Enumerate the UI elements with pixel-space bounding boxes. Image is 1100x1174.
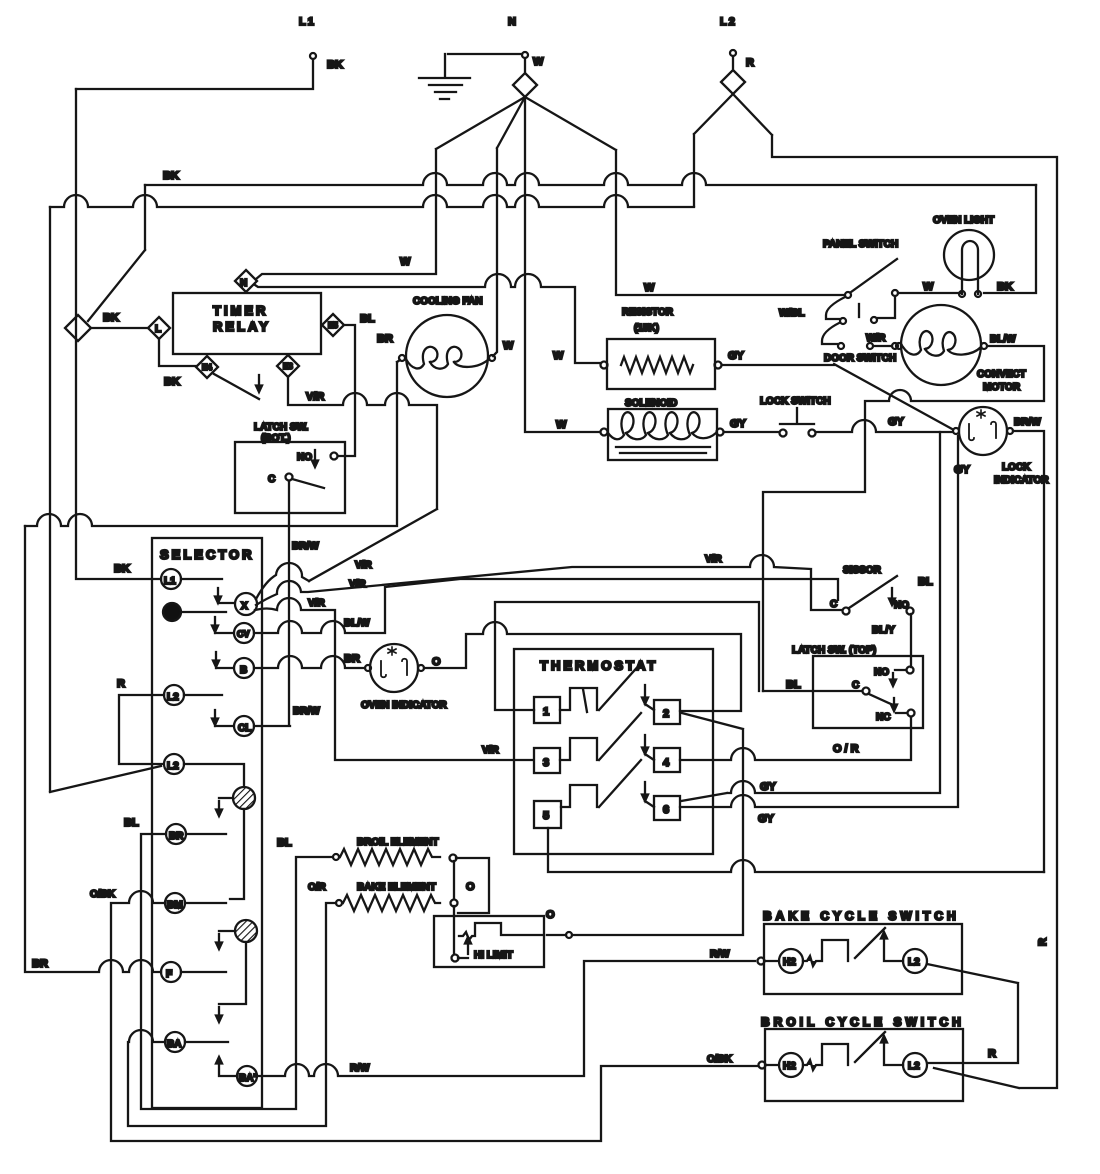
- svg-text:5: 5: [543, 810, 549, 822]
- wire BR/W lock indicator right to bottom route: [1013, 431, 1044, 872]
- svg-text:CONVECT: CONVECT: [977, 369, 1026, 380]
- thermostat contact 1-2: [560, 663, 654, 710]
- latch bot NO arrow: [312, 450, 318, 467]
- selector hatched contact 1: [233, 787, 255, 809]
- solenoid coil: [608, 412, 716, 439]
- hi limit box: [434, 916, 544, 967]
- svg-text:BL: BL: [918, 576, 933, 588]
- cooling fan: [406, 315, 488, 397]
- svg-text:GY: GY: [758, 813, 775, 825]
- latch switch (bot) box: [235, 442, 345, 513]
- svg-text:BAKE ELEMENT: BAKE ELEMENT: [357, 882, 436, 893]
- svg-text:3: 3: [543, 757, 549, 769]
- wire BK bus west end to connector diamond: [88, 185, 145, 321]
- svg-text:BK: BK: [163, 170, 179, 182]
- svg-text:NO: NO: [894, 600, 909, 611]
- timer blade from E4: [214, 374, 259, 399]
- wire V/R X to sissor: [256, 555, 842, 610]
- svg-text:2: 2: [663, 708, 669, 720]
- lock indicator star: [977, 410, 985, 418]
- svg-text:X: X: [241, 601, 248, 612]
- terminal E5 diamond: [322, 314, 344, 336]
- wire V/R X to pin3: [255, 598, 533, 760]
- wire V/R E3 to X (via top route): [288, 377, 437, 581]
- wire BL to latch top C: [763, 690, 862, 692]
- wire BL/W convect right to BL net: [763, 346, 1044, 691]
- svg-text:BL/W: BL/W: [990, 334, 1016, 345]
- pin 5: [534, 801, 561, 828]
- svg-text:6: 6: [663, 804, 669, 816]
- svg-text:BR: BR: [377, 333, 393, 345]
- selector terminal BR: [166, 824, 186, 844]
- selector terminal BA: [165, 1032, 185, 1052]
- wire R bake L2 to broil L2: [927, 964, 1018, 1063]
- selector terminal L1: [161, 569, 181, 589]
- bus R horizontal (second): [50, 195, 694, 207]
- svg-text:BL: BL: [277, 837, 292, 849]
- svg-text:E4: E4: [202, 363, 212, 372]
- wire GY pin6 to lock indicator: [680, 436, 958, 807]
- solenoid box: [608, 409, 717, 460]
- selector terminal CL: [234, 716, 254, 736]
- selector terminal BA': [237, 1066, 257, 1086]
- svg-text:O/BK: O/BK: [90, 889, 116, 900]
- connector diamond on BK vertical: [65, 315, 91, 341]
- svg-text:W: W: [503, 340, 514, 352]
- wire O oven indicator to pin2: [424, 622, 741, 711]
- wire BR left edge down to F: [25, 526, 161, 972]
- wire W/R door to convect: [874, 345, 892, 347]
- terminal L diamond: [148, 317, 170, 339]
- svg-text:BK: BK: [103, 312, 119, 324]
- wire BK vertical left (L1 to selector): [76, 89, 161, 579]
- svg-text:BR: BR: [169, 831, 184, 842]
- svg-text:V/R: V/R: [349, 579, 366, 590]
- svg-text:H2: H2: [783, 957, 796, 968]
- sissor NO: [907, 608, 914, 615]
- svg-text:NO: NO: [874, 667, 889, 678]
- thermostat box: [514, 649, 713, 854]
- resistor zigzag: [621, 357, 693, 373]
- wire L down to E4: [159, 339, 196, 366]
- svg-text:W/R: W/R: [866, 333, 886, 344]
- svg-text:N: N: [240, 278, 247, 289]
- pin 2: [654, 700, 680, 724]
- selector box: [152, 538, 262, 1108]
- svg-text:BAKE CYCLE SWITCH: BAKE CYCLE SWITCH: [763, 909, 960, 923]
- svg-text:C: C: [852, 680, 859, 691]
- svg-text:R: R: [746, 57, 754, 69]
- svg-text:SISSOR: SISSOR: [843, 565, 882, 576]
- wire BL/W CV east: [254, 579, 838, 633]
- svg-text:GY: GY: [888, 416, 905, 428]
- svg-text:BK: BK: [327, 59, 343, 71]
- latch top C and lever: [863, 688, 870, 695]
- svg-text:F: F: [166, 969, 172, 980]
- svg-text:BR: BR: [344, 653, 360, 665]
- selector black contact: [163, 603, 181, 621]
- wire N to ground: [448, 53, 522, 55]
- svg-text:HI LIMIT: HI LIMIT: [474, 950, 513, 961]
- svg-text:W: W: [556, 419, 567, 431]
- wire O/R pin4 to latch top NC: [680, 717, 911, 760]
- terminal E4 diamond: [196, 356, 218, 378]
- svg-text:OVEN LIGHT: OVEN LIGHT: [933, 215, 994, 226]
- selector terminal L2: [164, 685, 184, 705]
- svg-text:LATCH SW. (TOP): LATCH SW. (TOP): [792, 645, 876, 656]
- O junction box: [456, 858, 489, 913]
- bake contact: [765, 928, 903, 966]
- svg-text:TIMER: TIMER: [213, 303, 268, 318]
- wire O/BK BM to broil cycle switch: [111, 891, 757, 1141]
- svg-text:DOOR SWITCH: DOOR SWITCH: [824, 353, 896, 364]
- svg-text:W: W: [533, 56, 544, 68]
- wire W panel to oven light: [898, 292, 960, 294]
- wire BL/Y sissor NO to latch top NO: [910, 614, 912, 667]
- svg-text:O: O: [432, 656, 441, 668]
- convect coil: [903, 331, 981, 356]
- selector terminal CV: [234, 623, 254, 643]
- svg-text:BR/W: BR/W: [292, 541, 319, 552]
- CL arrow: [212, 710, 233, 726]
- svg-text:V/R: V/R: [306, 391, 324, 403]
- svg-text:LATCH SW.: LATCH SW.: [254, 422, 308, 433]
- wire BR/W pin5 to lock route: [548, 828, 1044, 872]
- bus BK horizontal (top): [145, 173, 1036, 185]
- svg-text:L2: L2: [167, 761, 179, 772]
- wire W diamond to solenoid (x525): [525, 97, 600, 432]
- svg-text:1: 1: [543, 706, 549, 718]
- wire R link L2 to L2': [119, 695, 164, 764]
- svg-text:O/R: O/R: [833, 743, 862, 755]
- convect motor: [901, 305, 981, 385]
- X arrow: [215, 588, 234, 603]
- CV arrow: [212, 617, 233, 633]
- svg-text:H2: H2: [783, 1061, 796, 1072]
- pin 1: [534, 697, 560, 723]
- svg-text:BR/W: BR/W: [293, 706, 320, 717]
- svg-text:(BOT.): (BOT.): [261, 433, 290, 444]
- wire E5 to latch NO: [338, 325, 355, 456]
- wire L2 to bus2 end: [694, 94, 733, 206]
- timer blade arrow: [256, 375, 262, 392]
- svg-text:BK: BK: [997, 281, 1013, 293]
- wire BR fan-left down and to left edge: [25, 360, 400, 526]
- svg-text:GY: GY: [728, 350, 745, 362]
- panel push contact: [826, 297, 845, 319]
- svg-text:V/R: V/R: [705, 554, 722, 565]
- svg-text:BROIL ELEMENT: BROIL ELEMENT: [357, 837, 438, 848]
- wire W diamond to cooling fan (x497): [493, 97, 525, 356]
- terminal L2: [730, 50, 736, 56]
- svg-text:CL: CL: [238, 723, 251, 734]
- svg-text:NC: NC: [876, 712, 890, 723]
- svg-text:BL/Y: BL/Y: [872, 625, 895, 636]
- svg-text:GY: GY: [760, 781, 777, 793]
- svg-text:W: W: [553, 350, 564, 362]
- svg-text:L1: L1: [299, 16, 316, 28]
- svg-text:V/R: V/R: [355, 560, 372, 571]
- svg-text:PANEL SWITCH: PANEL SWITCH: [823, 239, 898, 250]
- svg-text:GY: GY: [954, 464, 971, 476]
- thermostat contact 5-6: [561, 760, 654, 807]
- svg-text:OVEN INDICATOR: OVEN INDICATOR: [361, 700, 448, 711]
- svg-text:INDICATOR: INDICATOR: [994, 475, 1049, 486]
- svg-text:(15K): (15K): [634, 323, 659, 334]
- connector diamond N (timer relay): [235, 270, 257, 292]
- svg-text:R: R: [1037, 938, 1049, 946]
- selector terminal BM: [165, 893, 185, 913]
- svg-text:O: O: [466, 881, 475, 893]
- svg-text:R/W: R/W: [350, 1063, 370, 1074]
- wire GY solenoid to lock switch: [724, 431, 779, 433]
- svg-text:LOCK: LOCK: [1002, 462, 1031, 473]
- wire BL thermostat top (pin1 riser): [495, 602, 759, 710]
- svg-text:LOCK SWITCH: LOCK SWITCH: [760, 396, 831, 407]
- latch top NO: [907, 667, 914, 674]
- latch top NC: [908, 710, 915, 717]
- svg-text:O/BK: O/BK: [707, 1054, 733, 1065]
- latch bot C terminal and lever: [286, 474, 293, 481]
- cooling fan coil: [406, 347, 489, 369]
- pin 6: [654, 796, 680, 820]
- wire GY pin6 diagonal to lock switch junction: [681, 432, 940, 801]
- thermostat contact 3-4: [560, 713, 654, 760]
- svg-text:W: W: [400, 256, 411, 268]
- oven indicator: [370, 644, 418, 692]
- latch switch (top) box: [813, 656, 923, 728]
- pin 3: [534, 748, 560, 773]
- svg-text:R/W: R/W: [710, 949, 730, 960]
- diamond W (line N): [513, 58, 537, 97]
- svg-text:O/R: O/R: [308, 882, 327, 893]
- wire L1 down-left: [76, 59, 313, 89]
- wire BR/W latch C down to selector CL: [254, 481, 290, 726]
- svg-text:BROIL CYCLE SWITCH: BROIL CYCLE SWITCH: [761, 1015, 965, 1029]
- svg-text:L1: L1: [164, 576, 176, 587]
- svg-text:L2: L2: [908, 957, 920, 968]
- svg-text:4: 4: [663, 757, 670, 769]
- svg-text:BK: BK: [114, 563, 130, 575]
- svg-text:L: L: [155, 324, 161, 335]
- wire GY lock switch to lock indicator: [816, 420, 952, 432]
- wire W feed to resistor row: [255, 274, 600, 363]
- wire W diamond to N-connector (via x436): [256, 97, 525, 279]
- svg-text:COOLING FAN: COOLING FAN: [413, 296, 482, 307]
- solenoid core lines: [616, 447, 710, 453]
- terminal L1: [310, 53, 316, 59]
- wire diamond to L: [92, 327, 148, 329]
- svg-text:BA': BA': [239, 1073, 256, 1084]
- selector terminal X: [235, 593, 257, 615]
- svg-text:C: C: [268, 474, 275, 485]
- svg-text:BL: BL: [124, 817, 139, 829]
- svg-text:L2: L2: [720, 16, 737, 28]
- broil contact: [766, 1032, 903, 1070]
- svg-text:R: R: [117, 678, 125, 690]
- wire O hi-limit to thermostat pin2 net: [566, 932, 572, 938]
- BA' west stub and arrow: [216, 1057, 237, 1076]
- selector hatched contact 2: [235, 920, 257, 942]
- svg-text:L2: L2: [908, 1061, 920, 1072]
- wire W diamond to panel switch (x616): [525, 97, 844, 295]
- svg-text:BR: BR: [32, 958, 48, 970]
- selector terminal B: [234, 658, 254, 678]
- svg-text:O: O: [546, 909, 555, 921]
- selector terminal L2': [164, 754, 184, 774]
- svg-text:BL: BL: [360, 313, 375, 325]
- wire GY resistor to lock indicator (diagonal): [722, 364, 952, 429]
- svg-text:SOLENOID: SOLENOID: [625, 398, 677, 409]
- wire BK bus east end down to oven light: [984, 185, 1036, 293]
- svg-text:BK: BK: [164, 376, 180, 388]
- svg-text:L2: L2: [167, 692, 179, 703]
- svg-text:BA: BA: [167, 1039, 181, 1050]
- lock indicator: [959, 407, 1007, 455]
- svg-text:V/R: V/R: [482, 745, 499, 756]
- svg-text:W/BL: W/BL: [779, 308, 805, 319]
- svg-text:E3: E3: [283, 362, 293, 371]
- svg-text:MOTOR: MOTOR: [983, 382, 1021, 393]
- wire BL BR to broil element: [141, 834, 332, 1109]
- svg-text:W: W: [644, 282, 655, 294]
- selector terminal F: [161, 962, 181, 982]
- svg-text:V/R: V/R: [308, 598, 325, 609]
- svg-text:GY: GY: [730, 418, 747, 430]
- diamond R (line L2): [721, 56, 745, 94]
- svg-text:NO: NO: [297, 452, 312, 463]
- svg-text:BM: BM: [167, 900, 183, 911]
- svg-text:E5: E5: [328, 321, 338, 330]
- timer relay box: [173, 293, 321, 354]
- svg-text:CV: CV: [237, 629, 250, 639]
- svg-text:RESISTOR: RESISTOR: [622, 307, 674, 318]
- terminal N: [522, 52, 528, 58]
- svg-text:SELECTOR: SELECTOR: [160, 547, 255, 562]
- lock indicator prongs: [969, 422, 996, 441]
- ground: [419, 54, 470, 99]
- wire R bus west end down to L2' diagonal: [50, 207, 161, 792]
- wire R: L2 diamond to right edge and down: [733, 94, 1057, 1088]
- svg-text:THERMOSTAT: THERMOSTAT: [540, 658, 658, 673]
- svg-text:B: B: [240, 665, 247, 676]
- resistor box: [607, 339, 715, 389]
- B arrow: [213, 652, 233, 668]
- svg-text:BL: BL: [786, 679, 801, 691]
- terminal E3 diamond: [277, 355, 299, 377]
- wire V/R X to E3 (fan out top): [256, 563, 309, 599]
- svg-text:R: R: [988, 1048, 996, 1060]
- svg-text:BL/W: BL/W: [344, 618, 370, 629]
- wire BA to bake element: [128, 903, 336, 1126]
- wire bake/broil element tie: [453, 861, 455, 954]
- latch bot NO terminal: [331, 453, 338, 460]
- svg-text:RELAY: RELAY: [213, 319, 271, 334]
- pin 4: [654, 748, 680, 772]
- wire R/W BA' to bake cycle switch: [257, 961, 755, 1076]
- wire BR B-row to oven indicator: [254, 656, 365, 668]
- svg-text:W: W: [923, 281, 934, 293]
- hi limit contact: [458, 937, 471, 958]
- svg-text:N: N: [508, 16, 516, 28]
- svg-text:C: C: [830, 599, 837, 610]
- svg-text:BR/W: BR/W: [1014, 417, 1041, 428]
